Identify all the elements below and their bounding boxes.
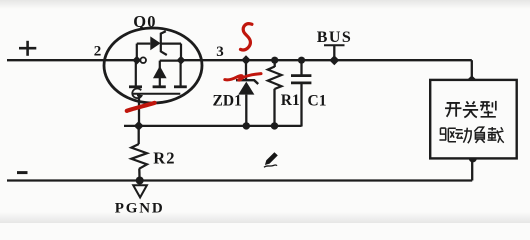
wire body stub	[159, 61, 161, 87]
channel segment left	[129, 85, 142, 88]
wire R1 top lead	[274, 60, 276, 67]
gate G curl	[132, 89, 141, 99]
channel segment middle	[153, 85, 166, 88]
svg-text:R2: R2	[153, 148, 176, 167]
pin 2 bubble	[140, 57, 146, 63]
node BUS terminal tick	[324, 44, 345, 46]
pin 2 junction dot	[132, 56, 141, 65]
wire gate vertical from Q0	[138, 94, 140, 127]
svg-text:PGND: PGND	[115, 201, 165, 217]
wire load box bottom rise	[471, 158, 473, 180]
junction dot ZD1 bottom	[243, 122, 250, 129]
wire right channel stub	[180, 60, 182, 87]
node - terminal	[17, 171, 28, 174]
resistor R2	[131, 144, 175, 169]
annotation red slash on gate	[127, 103, 155, 111]
glyph 动	[455, 128, 471, 144]
wire C1 bottom lead	[300, 84, 302, 127]
ground PGND	[115, 185, 165, 216]
wire top rail left (+ to Q0 pin 2)	[7, 59, 137, 61]
glyph 型	[480, 101, 496, 117]
svg-text:BUS: BUS	[317, 29, 352, 46]
junction dot load box bottom	[469, 154, 477, 162]
glyph 驱	[439, 128, 456, 142]
transistor Q0 ellipse body	[104, 28, 202, 103]
annotation red squiggle S	[241, 24, 252, 50]
wire left channel stub	[135, 60, 137, 87]
wire diode top left	[137, 42, 151, 44]
junction dot at BUS	[329, 55, 339, 65]
wire C1 top lead	[300, 60, 302, 75]
svg-text:C1: C1	[308, 93, 327, 110]
pin 3 junction dot	[177, 56, 186, 65]
junction dot C1 top	[298, 57, 305, 64]
junction dot R2 bottom on - rail	[136, 177, 144, 185]
svg-text:R1: R1	[281, 92, 300, 109]
svg-text:ZD1: ZD1	[213, 93, 242, 110]
wire BUS stub	[333, 45, 335, 60]
wire ZD1 top lead	[245, 60, 247, 80]
annotation pen cursor icon	[264, 152, 278, 167]
junction dot R1 bottom	[271, 122, 278, 129]
ZD1 triangle	[238, 82, 254, 95]
glyph 关	[463, 101, 478, 117]
junction dot load box top	[467, 75, 477, 84]
gate line	[133, 93, 180, 95]
junction dot R1 top	[271, 57, 278, 64]
wire R2 top lead	[138, 126, 140, 144]
capacitor C1	[291, 76, 326, 110]
body arrow	[153, 66, 167, 78]
resistor R1	[268, 67, 300, 110]
body diode zener bar	[161, 31, 167, 55]
wire top rail right (Q0 pin 3 to load)	[181, 59, 472, 61]
wire load box top drop	[471, 60, 473, 80]
wire gate rail horizontal	[124, 125, 302, 127]
transistor Q0 internals	[129, 31, 187, 98]
zener diode ZD1	[213, 80, 259, 109]
wire diode top right	[161, 42, 181, 44]
junction dot gate rail R2	[134, 121, 144, 131]
svg-text:3: 3	[216, 44, 224, 60]
wire drain riser	[136, 44, 138, 61]
load box 开关型驱动负载	[430, 80, 517, 158]
junction dot ZD1 top	[241, 55, 250, 64]
ZD1 cathode bar	[236, 80, 258, 84]
wire bottom rail (-)	[7, 179, 472, 181]
glyph 开	[445, 103, 461, 117]
wire R1 bottom lead	[273, 89, 275, 126]
annotation red scribble over ZD1	[225, 74, 261, 81]
glyph 负	[474, 127, 484, 143]
glyph 载	[488, 127, 504, 143]
wire source drop	[180, 44, 182, 61]
channel segment right	[174, 85, 187, 88]
body diode triangle	[150, 36, 160, 50]
node + terminal	[19, 41, 36, 56]
svg-text:2: 2	[94, 44, 102, 60]
wire ZD1 bottom lead	[245, 95, 247, 126]
wire R2 bottom lead	[138, 169, 141, 181]
wire Q0 internal source link	[160, 59, 181, 61]
svg-text:Q0: Q0	[133, 12, 156, 31]
